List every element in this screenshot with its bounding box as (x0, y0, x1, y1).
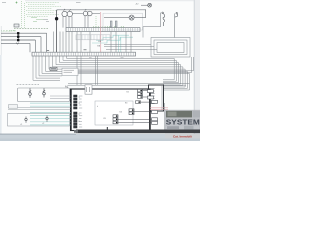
board input pins left group 1 (74, 95, 77, 109)
right page edge (195, 0, 200, 141)
solenoid valve Y1 (104, 10, 146, 21)
svg-text:5: 5 (79, 114, 80, 116)
dashed net tie (17, 84, 40, 86)
svg-text:Cat. Immobili: Cat. Immobili (173, 134, 192, 138)
junction blob node (56, 10, 58, 52)
motor M1 (62, 9, 73, 17)
wire bends to strip (30, 33, 47, 52)
probe T2 (46, 116, 48, 122)
drops from strip to board (77, 56, 98, 85)
output connector boxes (148, 90, 158, 125)
left page edge tint (0, 55, 2, 134)
bottom page edge (0, 134, 200, 141)
tiny net labels (47, 50, 124, 58)
green sublabels (31, 18, 43, 22)
motor M2 wires (85, 16, 88, 28)
svg-text:K3: K3 (125, 103, 127, 105)
actuator mark (16, 43, 19, 45)
board input pins left group 2 (74, 112, 77, 128)
motor M2 (83, 9, 92, 16)
relay K10 cluster (138, 89, 143, 98)
relay K13 cluster (113, 115, 118, 124)
red feed wires right (150, 108, 168, 110)
staircase wires to right loop nest (42, 56, 190, 90)
corner connector box XS2 (149, 85, 164, 111)
svg-text:K5: K5 (104, 118, 106, 120)
relay labels (104, 92, 129, 121)
board label A1 (65, 85, 69, 89)
right loop nest upper (143, 27, 193, 73)
left loop nest (33, 56, 62, 80)
top edge connector XS1 (85, 85, 92, 94)
watermark logo (165, 110, 200, 133)
ntc sensor label (9, 105, 18, 109)
relay K11 cluster (136, 101, 141, 104)
green dashed drop wire (95, 16, 97, 27)
tiny label (135, 4, 139, 6)
sensor input box B10 (18, 88, 70, 102)
corner sheet mark (2, 3, 81, 22)
green wire legend block (16, 1, 62, 29)
svg-text:1: 1 (79, 97, 80, 99)
main switch contact dots (17, 32, 19, 41)
cyan control wires upper (92, 35, 133, 52)
svg-text:K2: K2 (127, 92, 129, 94)
control wires to right nest (104, 44, 157, 49)
junction box X3 (62, 68, 78, 75)
vertical drops into main strip (54, 32, 132, 53)
svg-text:3: 3 (79, 103, 80, 105)
wire label tags (98, 41, 102, 48)
page background (0, 0, 200, 141)
thermal cutout F1 (29, 88, 32, 98)
probe T1 (25, 117, 27, 123)
mains feed wires L1 L2 L3 N (1, 33, 47, 43)
probe box B11 (8, 114, 70, 127)
relay driver sub panel (95, 101, 133, 125)
motor M1 wires (63, 17, 72, 28)
net label plate (50, 67, 57, 70)
upper terminal strip X1 (66, 26, 140, 32)
svg-text:K4: K4 (120, 112, 122, 114)
sensor wires into board (8, 96, 71, 109)
dark footer band (76, 130, 200, 134)
board bottom tick (106, 127, 108, 130)
svg-text:L1 L2 L3 N PE: L1 L2 L3 N PE (2, 31, 17, 33)
controller board A1 (71, 89, 151, 131)
output drop wires (162, 85, 167, 130)
relay frame K1 (103, 13, 143, 30)
black dashed link line (14, 28, 48, 30)
long feed wires to right (68, 71, 193, 85)
main terminal strip X2 (32, 52, 136, 56)
relay output stubs (118, 91, 152, 123)
pin name dashes (79, 96, 82, 127)
svg-text:8: 8 (79, 121, 80, 123)
thermostat B2 (175, 12, 178, 37)
buzzer H1 (141, 3, 152, 7)
pin number text (79, 97, 80, 123)
component row box (76, 35, 110, 40)
green node cross (16, 2, 18, 4)
pressure switch B1 (143, 12, 165, 27)
drawing frame (25, 0, 194, 2)
thermal cutout F2 (43, 88, 46, 97)
relay K12 cluster (129, 109, 134, 115)
red signal wire (100, 12, 102, 52)
tiny phase labels (2, 31, 17, 33)
green dashed vertical wires (21, 1, 23, 29)
green marks above strip (94, 26, 124, 28)
contact pair K1 (110, 21, 117, 27)
top bus wire (57, 9, 146, 11)
cyan sensor wires (30, 103, 71, 125)
small label box (14, 24, 19, 27)
